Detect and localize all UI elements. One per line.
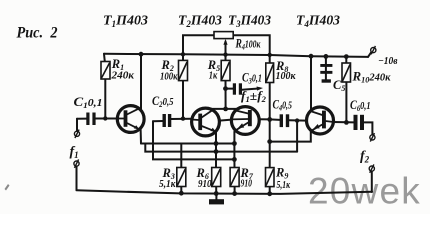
svg-text:910: 910 — [198, 179, 212, 190]
svg-text:5,1к: 5,1к — [277, 180, 291, 191]
svg-text:910: 910 — [241, 179, 253, 190]
svg-text:R4100к: R4100к — [235, 37, 261, 52]
svg-text:Т2П403: Т2П403 — [178, 13, 222, 30]
svg-text:−10в: −10в — [378, 56, 398, 67]
svg-text:100к: 100к — [160, 72, 178, 83]
svg-text:f1: f1 — [70, 145, 79, 161]
svg-text:f1±f2: f1±f2 — [241, 89, 266, 104]
svg-text:С30,1: С30,1 — [242, 71, 262, 86]
svg-text:5,1к: 5,1к — [159, 179, 176, 190]
svg-text:Рис. 2: Рис. 2 — [17, 25, 58, 42]
svg-text:Т1П403: Т1П403 — [103, 13, 148, 30]
svg-text:1к: 1к — [209, 71, 218, 82]
svg-text:R9: R9 — [275, 166, 288, 181]
svg-text:f2: f2 — [360, 149, 370, 165]
svg-text:100к: 100к — [276, 71, 297, 82]
svg-text:С40,5: С40,5 — [273, 98, 293, 113]
svg-text:С60,1: С60,1 — [350, 98, 371, 113]
svg-text:R10240к: R10240к — [351, 70, 391, 85]
svg-text:С20,5: С20,5 — [152, 94, 174, 109]
svg-text:Т3П403: Т3П403 — [228, 13, 271, 30]
svg-text:С10,1: С10,1 — [74, 95, 103, 110]
svg-text:Т4П403: Т4П403 — [296, 13, 340, 30]
svg-text:240к: 240к — [110, 71, 135, 82]
